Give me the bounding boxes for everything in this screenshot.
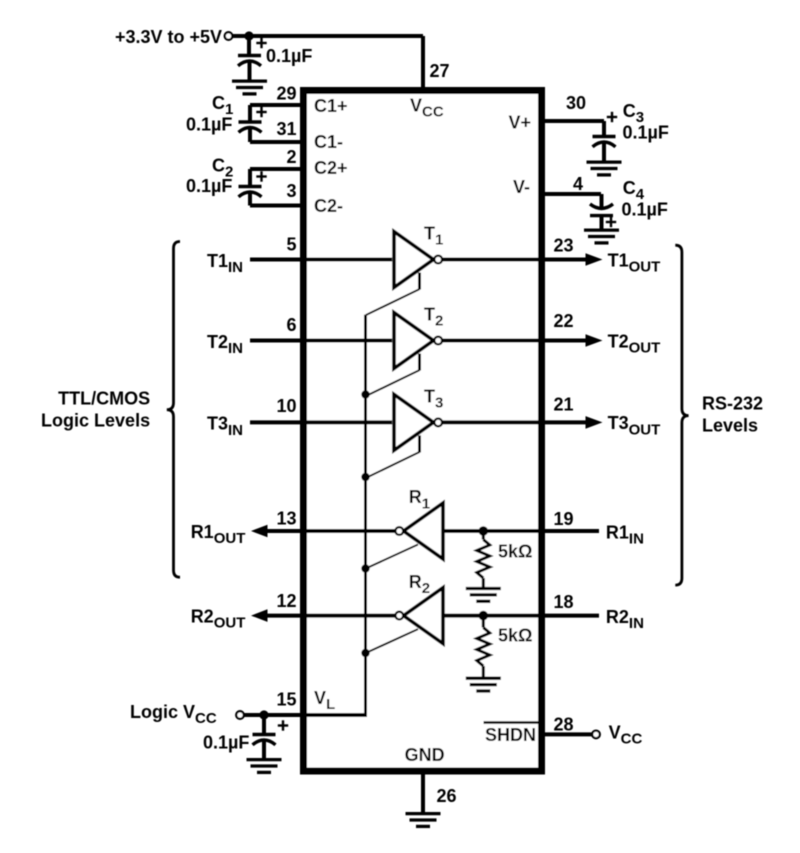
svg-text:T2IN: T2IN [207,332,243,357]
svg-text:0.1µF: 0.1µF [186,176,232,196]
svg-text:Logic Levels: Logic Levels [41,410,150,430]
svg-text:5kΩ: 5kΩ [498,626,532,646]
svg-text:0.1µF: 0.1µF [622,200,668,220]
svg-text:R2IN: R2IN [606,607,644,632]
svg-text:V-: V- [513,177,530,197]
svg-text:C2-: C2- [314,196,343,216]
svg-text:19: 19 [554,509,574,529]
svg-text:6: 6 [286,315,296,335]
svg-text:23: 23 [554,236,574,256]
svg-text:0.1µF: 0.1µF [186,115,232,135]
svg-text:18: 18 [554,592,574,612]
svg-text:27: 27 [430,61,450,81]
svg-text:R1IN: R1IN [606,523,644,548]
svg-text:Logic VCC: Logic VCC [130,702,217,727]
svg-text:C1+: C1+ [314,96,348,116]
svg-text:5kΩ: 5kΩ [498,542,532,562]
svg-text:T1IN: T1IN [207,251,243,276]
svg-text:0.1µF: 0.1µF [623,123,669,143]
svg-text:15: 15 [276,690,296,710]
svg-text:4: 4 [573,174,583,194]
svg-text:SHDN: SHDN [485,725,536,745]
svg-text:Levels: Levels [702,416,758,436]
svg-text:26: 26 [437,786,457,806]
svg-text:5: 5 [286,235,296,255]
svg-text:28: 28 [554,715,574,735]
svg-text:C2+: C2+ [314,158,348,178]
svg-text:21: 21 [554,395,574,415]
svg-text:22: 22 [554,311,574,331]
svg-text:RS-232: RS-232 [702,394,763,414]
svg-text:2: 2 [286,147,296,167]
svg-text:T3IN: T3IN [207,414,243,439]
svg-text:13: 13 [276,509,296,529]
svg-text:R2OUT: R2OUT [191,607,246,632]
svg-text:+3.3V to +5V: +3.3V to +5V [115,27,222,47]
svg-text:0.1µF: 0.1µF [266,46,312,66]
svg-text:GND: GND [405,745,445,765]
svg-text:VCC: VCC [609,723,643,748]
svg-text:10: 10 [276,396,296,416]
svg-text:T2OUT: T2OUT [608,331,661,356]
svg-text:12: 12 [276,591,296,611]
svg-text:T3OUT: T3OUT [608,413,661,438]
svg-text:C1-: C1- [314,132,343,152]
svg-text:0.1µF: 0.1µF [203,733,249,753]
svg-text:R1OUT: R1OUT [191,522,246,547]
svg-text:3: 3 [286,181,296,201]
svg-text:31: 31 [276,119,296,139]
svg-text:TTL/CMOS: TTL/CMOS [58,389,150,409]
svg-text:29: 29 [276,84,296,104]
svg-text:V+: V+ [508,113,531,133]
svg-text:30: 30 [566,93,586,113]
svg-text:T1OUT: T1OUT [608,250,661,275]
